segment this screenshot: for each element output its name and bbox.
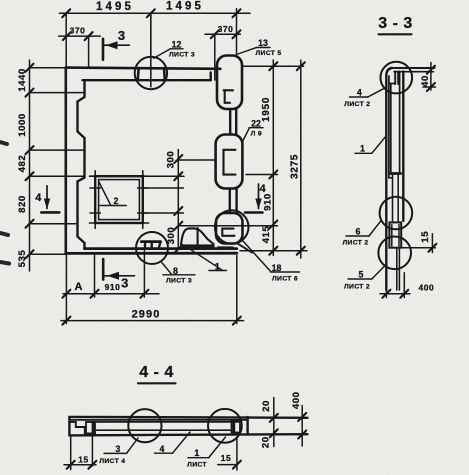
column K1 obround top-right <box>217 56 242 110</box>
wire 3-3 narrow channel below cap <box>392 175 394 223</box>
dimension line 370 top-left <box>59 35 101 37</box>
wire extension mid top <box>150 13 152 57</box>
dimension line 3275 right x=300.8 <box>300 60 302 258</box>
wire extension below plan x=94.5 <box>94 255 96 297</box>
wire centerline of K2 stub <box>178 159 216 161</box>
wire bottom wall inner line <box>85 247 237 250</box>
wire extension y=213 <box>143 212 184 214</box>
wire 4-4 right panel end block <box>232 421 241 433</box>
wire 3-3 wall outer left edge <box>386 68 392 290</box>
wire 4-4 second top line <box>71 419 248 421</box>
detail circle 18 at bottom-right column <box>215 210 249 244</box>
detail circle 3 left on 4-4 <box>128 409 161 442</box>
wire 3-3 channel below box <box>396 248 398 290</box>
wire leader label 4 (4-4) <box>173 432 191 453</box>
wire extension left corner up <box>65 13 67 67</box>
wire 4-4 left panel end block <box>86 422 95 434</box>
node tick 370R a <box>211 30 219 38</box>
node ticks 2990 <box>62 317 70 325</box>
column K1 joint mark horizontal <box>224 89 234 91</box>
wire leader label 2 <box>99 182 111 205</box>
wire extension y=174.5 <box>246 174 278 176</box>
element 1 base plate <box>181 244 215 247</box>
node title 3-3 <box>378 15 413 32</box>
node title 4-4 <box>139 364 174 381</box>
node section mark 3 bottom <box>103 259 134 280</box>
wire leader label 12 <box>154 49 171 58</box>
element 2 square opening inner <box>99 180 140 220</box>
node ticks right chain <box>269 62 277 70</box>
node corner cross marks of element 2 <box>90 171 149 229</box>
element 1 hump bracket on bottom wall <box>181 228 214 244</box>
dimension line 1495+1495 top <box>59 12 250 14</box>
wire extension 370 right inner <box>214 34 216 80</box>
wire left wall outer line <box>65 68 68 254</box>
wire leader label 4 (3-3) <box>368 88 386 97</box>
wire leader label 1 <box>191 250 223 270</box>
detail circle 8 on bottom wall <box>136 232 168 264</box>
wire top wall outer line <box>66 68 221 69</box>
wire extension y=250.8 <box>240 250 307 252</box>
wire 4-4 bottom face <box>69 434 307 435</box>
tick marks (45 deg slashes) <box>26 9 305 324</box>
node section mark 4 left <box>41 186 59 213</box>
dimension line 370 top-right <box>205 33 240 35</box>
wire 4-4 panel bottom line <box>95 429 232 431</box>
wire extension 370 left <box>88 36 90 68</box>
wire extension y=188 <box>143 187 184 189</box>
wire extension below plan x=236.8 <box>236 256 238 324</box>
node ticks left chain <box>26 64 34 72</box>
scan noise overlay <box>0 0 1 1</box>
wire right wall joint lines between K2 and K3 <box>229 189 231 214</box>
wire leader label 5 (3-3) <box>372 266 385 279</box>
section 3-3 texts <box>342 75 434 292</box>
column K3 obround bottom-right <box>216 213 243 244</box>
wire left wall face profile with notches <box>78 80 85 248</box>
wire 4-4 left end cap <box>68 417 70 436</box>
wire extension tie y=223.8 <box>30 223 78 225</box>
node ticks A 910 <box>62 290 70 298</box>
wire extension tie y=150.1 <box>30 149 85 151</box>
detail circle 4 top of 3-3 <box>381 62 413 94</box>
detail circle 1 right on 4-4 <box>208 409 242 443</box>
wire 3-3 top plate <box>392 67 435 69</box>
dimension line A+910 y=293.8 <box>63 293 159 295</box>
column K2 obround middle-right <box>216 135 243 189</box>
element 2 square opening outer <box>95 176 143 223</box>
dimension chain right x=273.3 <box>272 60 274 256</box>
wire centerline through circle 12 <box>150 13 152 87</box>
wire leader label 8 <box>162 263 172 275</box>
wire extension tie y=92.6 <box>30 92 85 94</box>
node tick 370L a <box>63 32 71 40</box>
wire leader label 1 (3-3) <box>372 136 387 154</box>
wire 3-3 wall outer right edge <box>402 71 404 221</box>
scan artifact marks at left paper edge <box>0 142 9 264</box>
wire 3-3 corner post <box>394 71 396 84</box>
dimension 15 bottom-left of 4-4 <box>70 435 72 469</box>
column K1 joint mark step <box>225 90 230 103</box>
dimension 20/20/400 right of 4-4 <box>273 398 275 447</box>
column K3 base plate <box>217 246 234 249</box>
node tick 1495 mid <box>147 9 155 17</box>
dimension 40 at 3-3 top right <box>430 63 432 91</box>
wire top wall inner end cap <box>209 73 211 81</box>
wire leader label 6 (3-3) <box>369 221 381 236</box>
wire 3-3 wall inner left line <box>388 76 390 178</box>
dimension 15 bottom-right of 4-4 <box>236 437 238 470</box>
wire bottom-right corner diagonal <box>238 244 252 253</box>
element 1 center stroke <box>197 228 199 244</box>
wire leader label 13 <box>237 48 257 55</box>
detail circle 5 bottom of 3-3 <box>378 237 411 270</box>
wire extension top right y=66.3 <box>243 65 304 67</box>
wire 3-3 bottom box insert <box>389 222 401 247</box>
wire 4-4 left end step <box>71 422 95 434</box>
detail circle 12 on top wall <box>135 57 167 89</box>
embed plate legs inside circle 8 <box>144 242 146 249</box>
node ticks 300 dims near square <box>174 155 182 163</box>
dimension 15 at 3-3 right <box>431 234 433 253</box>
wire bottom wall outer line <box>66 252 237 255</box>
node section mark 3 top <box>103 39 129 60</box>
dimension 400 at 3-3 bottom <box>380 293 410 295</box>
node tick 370R b <box>233 30 241 38</box>
wire extension right edge top <box>236 9 238 56</box>
node tick 1495 right <box>233 9 241 17</box>
embed plate mark inside circle 8: top bar <box>141 240 160 243</box>
wire extension from square top y=176 <box>143 175 184 177</box>
weld joint strokes inside circle 12 <box>137 68 140 80</box>
wire 4-4 right end cap <box>246 417 248 435</box>
node tick 1495 left <box>62 9 70 17</box>
column K2 joint marks <box>224 150 236 175</box>
wire 4-4 panel top line <box>87 421 240 423</box>
wire 3-3 panel channel right <box>399 71 401 173</box>
section 4-4 texts <box>78 391 302 468</box>
column K3 joint marks <box>222 229 234 236</box>
wire leader label 3 (4-4) <box>127 438 139 453</box>
wire 4-4 top face <box>69 416 307 419</box>
node ticks 3275 <box>297 62 305 70</box>
dimension vertical 300/300 near square 2 x=178.3 <box>177 150 179 250</box>
dimension chain left x=29.5 <box>29 60 31 271</box>
wire centerline of K3 through hump to dims <box>178 225 277 227</box>
wire right wall joint lines between K1 and K2 <box>229 109 231 135</box>
wire extension below plan x=66.4 <box>65 254 67 323</box>
wire top wall inner line <box>83 79 211 81</box>
dimension line 2990 y=320.6 <box>61 320 244 322</box>
wire leader label 18 <box>243 241 272 272</box>
wire extension tie y=254.3 <box>30 253 66 255</box>
wire 4-4 right end step <box>239 433 241 435</box>
wire extension tie y=176.3 <box>30 175 85 177</box>
wire extension tie y=67.7 <box>30 67 66 69</box>
detail circle 6 middle of 3-3 <box>380 197 413 230</box>
node section mark 4 right <box>245 184 263 213</box>
wire leader label 1 (4-4) <box>209 437 226 458</box>
wire 3-3 panel bottom cap <box>390 172 401 175</box>
wire 3-3 panel channel left <box>390 84 392 174</box>
wire extension below plan x=144.4 <box>143 250 145 297</box>
wire leader label 22 <box>242 128 250 143</box>
wire 3-3 box bottom extension right <box>401 247 435 249</box>
node tick 370L b <box>85 32 93 40</box>
